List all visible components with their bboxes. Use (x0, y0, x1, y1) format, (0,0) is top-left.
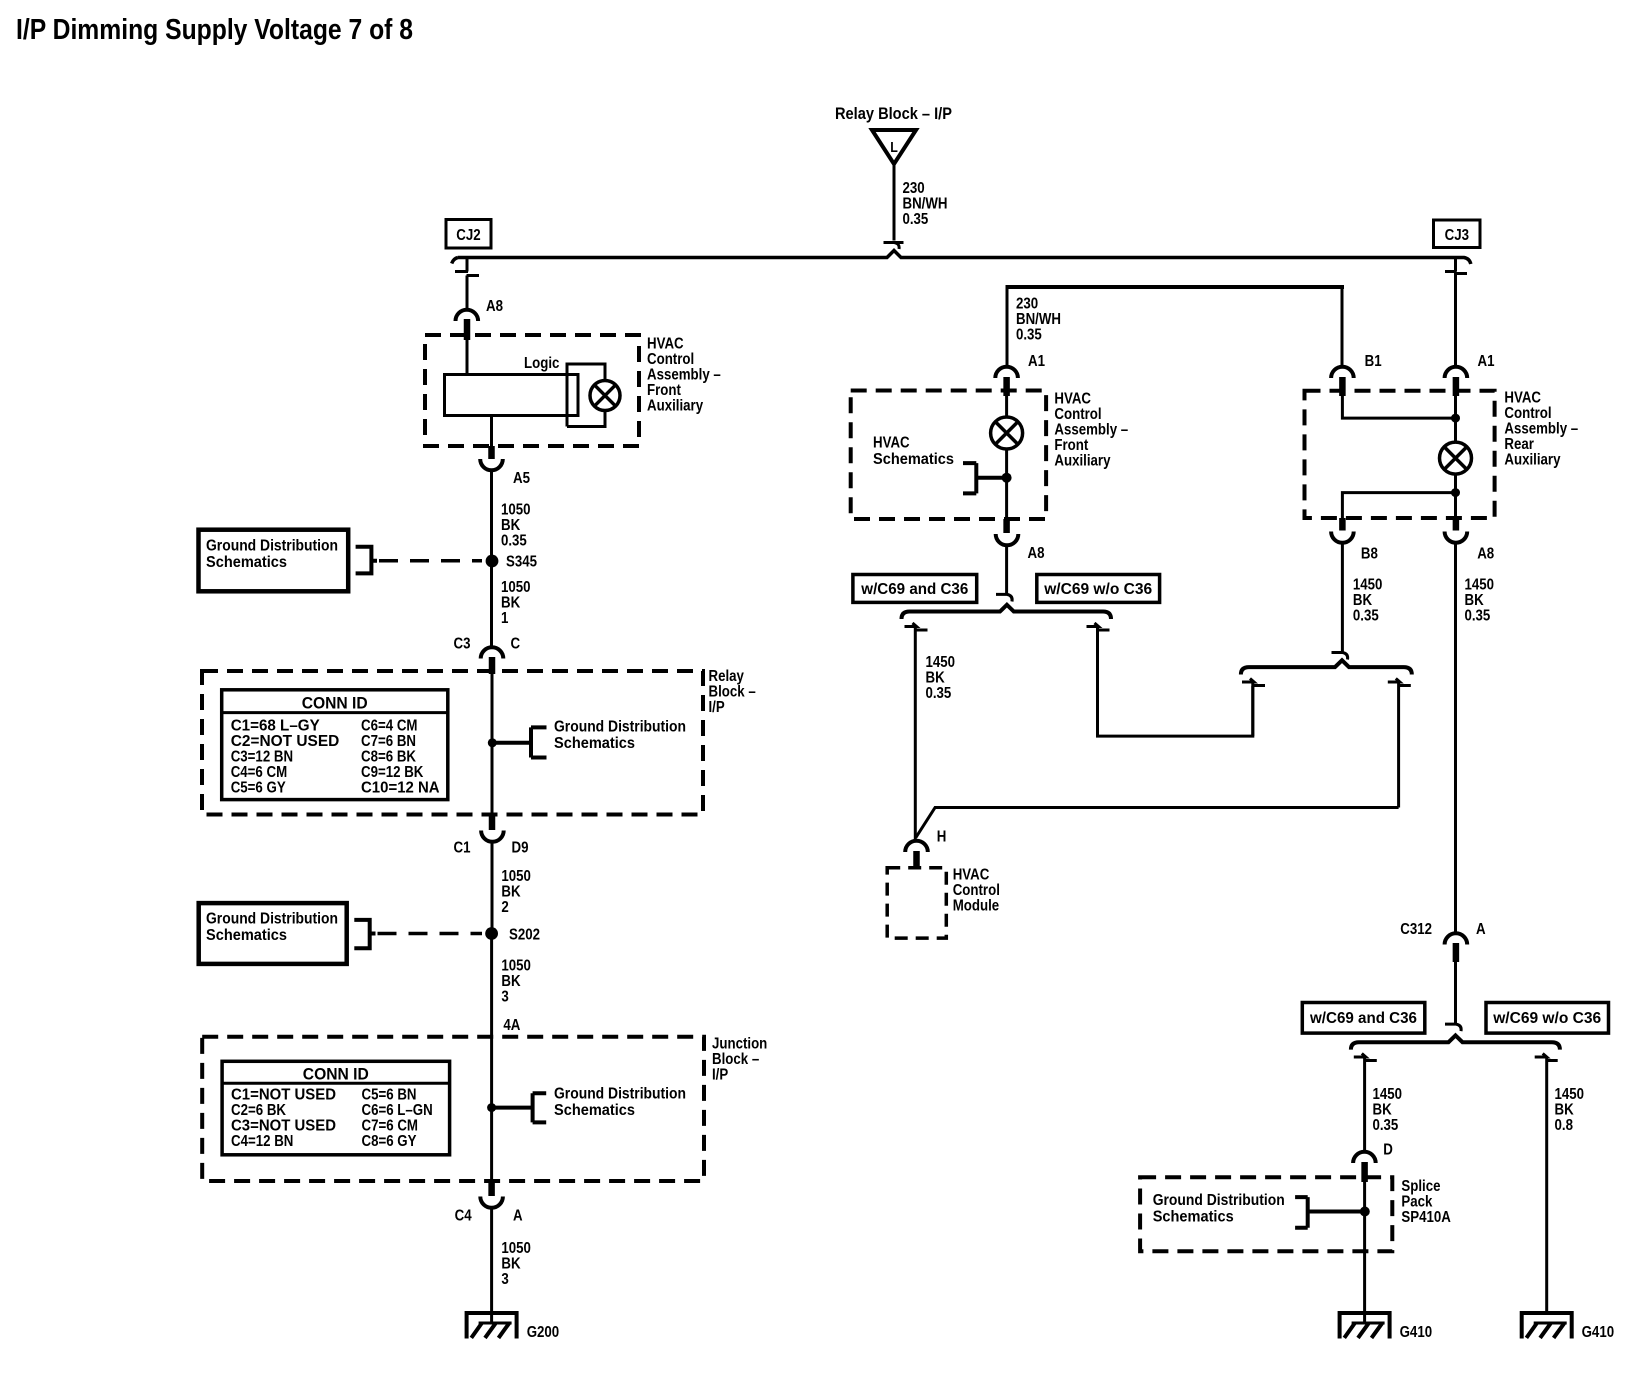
relay block triangle symbol (872, 130, 916, 164)
svg-text:0.8: 0.8 (1555, 1117, 1574, 1134)
svg-text:BK: BK (501, 1256, 521, 1273)
lamp (rear aux) (1440, 442, 1472, 474)
HVAC Control Assembly Front Auxiliary dashed box (middle) (851, 391, 1046, 520)
lamp bracket loop (567, 364, 605, 427)
wire CJ3 down (1445, 258, 1467, 366)
svg-text:C8=6 GY: C8=6 GY (362, 1133, 417, 1150)
wire B8 down to rear split (1332, 543, 1348, 660)
ground G410 (right) (1520, 1313, 1614, 1341)
splice pack SP410A dashed box (1140, 1177, 1392, 1251)
svg-text:0.35: 0.35 (1016, 327, 1042, 344)
svg-text:A1: A1 (1478, 353, 1495, 370)
dashed link to S202 (378, 932, 483, 936)
svg-text:Auxiliary: Auxiliary (1054, 453, 1110, 470)
svg-text:3: 3 (501, 989, 508, 1006)
svg-text:BK: BK (501, 884, 521, 901)
branch start left (w/C69 and C36 path) (905, 623, 928, 841)
svg-text:C9=12 BK: C9=12 BK (361, 764, 424, 781)
svg-text:4A: 4A (503, 1017, 520, 1034)
svg-text:Control: Control (647, 351, 694, 368)
svg-text:BK: BK (1373, 1102, 1393, 1119)
svg-text:1050: 1050 (501, 1240, 531, 1257)
connector B1 (1331, 353, 1382, 396)
svg-text:1450: 1450 (1465, 577, 1495, 594)
svg-text:1450: 1450 (1353, 577, 1383, 594)
ground distribution schematics ref box 1 (199, 530, 349, 592)
HVAC Control Module dashed box (887, 868, 946, 938)
wire from rear-right branch to H junction (916, 808, 1399, 838)
svg-text:S202: S202 (509, 927, 540, 944)
connector H (905, 829, 946, 870)
junction dot in relay block (488, 738, 497, 747)
rear box internal wiring (1342, 396, 1455, 442)
svg-text:D: D (1383, 1142, 1393, 1159)
svg-text:Ground Distribution: Ground Distribution (206, 911, 338, 928)
svg-text:w/C69 w/o C36: w/C69 w/o C36 (1492, 1010, 1601, 1027)
connector C1 / D9 (exit relay block) (454, 815, 529, 857)
svg-text:Assembly –: Assembly – (1504, 421, 1578, 438)
svg-text:Relay Block – I/P: Relay Block – I/P (835, 104, 952, 123)
svg-text:0.35: 0.35 (1465, 608, 1491, 625)
svg-text:1450: 1450 (1555, 1086, 1585, 1103)
svg-text:I/P: I/P (712, 1067, 728, 1084)
svg-text:1450: 1450 (926, 654, 956, 671)
svg-text:HVAC: HVAC (873, 435, 910, 452)
svg-text:L: L (890, 139, 898, 156)
wire S202 to junction block (490, 934, 493, 1037)
svg-text:BN/WH: BN/WH (903, 196, 948, 213)
branch start left (bottom) (1354, 1054, 1377, 1153)
connector A8 (rear exit) (1445, 518, 1495, 563)
lamp (front aux, left) (590, 381, 620, 411)
wire down to A1 front (1006, 285, 1009, 366)
svg-text:CONN ID: CONN ID (302, 694, 368, 713)
CONN ID table 1 (222, 690, 448, 800)
svg-text:Logic: Logic (524, 355, 559, 372)
node CJ2 label box (446, 220, 491, 249)
svg-text:CJ3: CJ3 (1445, 227, 1469, 244)
svg-text:0.35: 0.35 (926, 685, 952, 702)
bracket from ref box 1 (356, 547, 377, 574)
svg-text:Schematics: Schematics (1153, 1209, 1234, 1226)
HVAC Control Assembly Rear Auxiliary dashed box (1305, 391, 1495, 518)
svg-text:BK: BK (1465, 592, 1485, 609)
split bus (front options) (902, 605, 1112, 619)
svg-text:w/C69 w/o C36: w/C69 w/o C36 (1043, 581, 1152, 598)
connector A5 (exit of logic box) (480, 416, 530, 488)
svg-text:C10=12 NA: C10=12 NA (361, 780, 440, 797)
svg-text:C4=12 BN: C4=12 BN (231, 1133, 293, 1150)
bracket from ref box 2 (354, 920, 375, 948)
svg-text:C6=6 L–GN: C6=6 L–GN (362, 1102, 433, 1119)
svg-text:C2=6 BK: C2=6 BK (231, 1102, 286, 1119)
svg-text:1050: 1050 (501, 502, 531, 519)
svg-text:Control: Control (1054, 406, 1101, 423)
svg-text:Block –: Block – (712, 1051, 759, 1068)
wire feed horizontal B1 to A1(front) (1007, 285, 1344, 289)
wire through relay block (491, 674, 494, 815)
CONN ID table 2 (222, 1061, 450, 1155)
bracket to GDS text in relay block (492, 727, 547, 757)
svg-text:BK: BK (501, 595, 521, 612)
wire C4 to G200 (490, 1208, 493, 1324)
node CJ3 label box (1434, 220, 1481, 248)
svg-text:Schematics: Schematics (554, 735, 635, 752)
svg-text:Schematics: Schematics (206, 554, 287, 571)
svg-text:G410: G410 (1582, 1324, 1615, 1341)
svg-text:B8: B8 (1361, 546, 1378, 563)
svg-text:Control: Control (953, 882, 1000, 899)
ground distribution schematics ref box 2 (199, 903, 347, 964)
svg-text:Schematics: Schematics (873, 451, 954, 468)
svg-text:Front: Front (647, 382, 681, 399)
option box w/C69 w/o C36 (front) (1037, 575, 1160, 603)
svg-text:Junction: Junction (712, 1036, 767, 1053)
svg-text:Control: Control (1504, 405, 1551, 422)
connector A8 (front aux exit) (996, 519, 1045, 562)
svg-text:1050: 1050 (501, 579, 531, 596)
svg-text:Schematics: Schematics (206, 927, 287, 944)
wire through junction block (490, 1037, 493, 1181)
wire C312 down to bottom split (1445, 962, 1461, 1031)
relay block I/P dashed box (202, 671, 703, 815)
svg-text:Pack: Pack (1401, 1194, 1432, 1211)
svg-text:1450: 1450 (1373, 1086, 1403, 1103)
svg-text:C1=NOT USED: C1=NOT USED (231, 1087, 336, 1104)
svg-text:Block –: Block – (709, 684, 756, 701)
split bus (bottom options) (1351, 1035, 1560, 1049)
lamp (front aux, middle) (991, 417, 1023, 449)
connector C4 / A (exit junction block) (455, 1181, 523, 1225)
svg-text:Ground Distribution: Ground Distribution (1153, 1192, 1285, 1209)
branch start left (rear) (1242, 679, 1265, 737)
svg-text:C2=NOT USED: C2=NOT USED (231, 733, 340, 750)
svg-text:Auxiliary: Auxiliary (1504, 452, 1560, 469)
svg-text:Ground Distribution: Ground Distribution (206, 538, 338, 555)
option box w/C69 and C36 (front) (853, 575, 977, 603)
svg-text:2: 2 (501, 899, 508, 916)
option box w/C69 w/o C36 (bottom) (1486, 1003, 1609, 1034)
svg-text:HVAC: HVAC (953, 867, 990, 884)
svg-text:Auxiliary: Auxiliary (647, 398, 703, 415)
svg-text:A: A (513, 1208, 523, 1225)
svg-text:Ground Distribution: Ground Distribution (554, 719, 686, 736)
connector B8 (rear exit) (1331, 518, 1378, 563)
svg-text:BK: BK (1353, 592, 1373, 609)
svg-text:0.35: 0.35 (1373, 1117, 1399, 1134)
svg-text:HVAC: HVAC (1054, 391, 1091, 408)
svg-text:G200: G200 (527, 1324, 560, 1341)
ground G200 (465, 1313, 560, 1341)
svg-text:C1=68 L–GY: C1=68 L–GY (231, 718, 320, 735)
logic box (445, 355, 579, 416)
svg-text:CONN ID: CONN ID (303, 1065, 369, 1084)
svg-text:C7=6 BN: C7=6 BN (361, 733, 416, 750)
svg-text:0.35: 0.35 (501, 533, 527, 550)
connector C3 / C (entry relay block) (454, 636, 521, 675)
junction dot in junction block (487, 1103, 496, 1112)
connector D (splice pack entry) (1353, 1142, 1393, 1183)
splice S345 (486, 554, 537, 571)
svg-text:C312: C312 (1400, 921, 1432, 938)
svg-text:Relay: Relay (709, 668, 744, 685)
svg-text:A1: A1 (1028, 353, 1045, 370)
dashed link to S345 (379, 559, 482, 563)
split bus (rear options) (1241, 660, 1412, 674)
svg-text:1050: 1050 (501, 958, 531, 975)
svg-text:Splice: Splice (1401, 1178, 1440, 1195)
svg-text:Assembly –: Assembly – (1054, 422, 1128, 439)
svg-text:Rear: Rear (1504, 436, 1534, 453)
junction dot (HVAC schematics tap) (1002, 473, 1012, 483)
wire S345 to C3 (490, 561, 493, 647)
svg-text:C5=6 BN: C5=6 BN (362, 1087, 417, 1104)
wire A8 down to split (996, 545, 1012, 602)
connector A8 at bus (left branch) (455, 258, 503, 340)
splice S202 (485, 927, 540, 944)
option box w/C69 and C36 (bottom) (1302, 1003, 1425, 1034)
svg-text:BK: BK (501, 517, 521, 534)
bracket HVAC schematics (963, 463, 1007, 493)
bracket in splice pack box (1295, 1197, 1365, 1228)
svg-text:Module: Module (953, 898, 1000, 915)
bracket to GDS text in junction block (492, 1093, 547, 1122)
svg-text:BK: BK (501, 973, 521, 990)
svg-text:Schematics: Schematics (554, 1102, 635, 1119)
svg-text:C7=6 CM: C7=6 CM (362, 1118, 419, 1135)
svg-text:B1: B1 (1365, 353, 1382, 370)
branch start right (bottom) (1535, 1054, 1558, 1312)
svg-text:C3: C3 (454, 636, 471, 653)
svg-text:Ground Distribution: Ground Distribution (554, 1086, 686, 1103)
svg-text:BN/WH: BN/WH (1016, 311, 1061, 328)
svg-text:I/P: I/P (709, 699, 725, 716)
svg-text:BK: BK (926, 669, 946, 686)
svg-text:HVAC: HVAC (1504, 390, 1541, 407)
svg-text:I/P Dimming Supply Voltage 7 o: I/P Dimming Supply Voltage 7 of 8 (16, 14, 413, 46)
connector A1 (front aux entry) (995, 353, 1045, 396)
svg-text:230: 230 (903, 180, 925, 197)
svg-text:G410: G410 (1400, 1324, 1433, 1341)
wire lamp to exit (1005, 449, 1008, 519)
svg-text:A8: A8 (1028, 545, 1045, 562)
svg-text:HVAC: HVAC (647, 336, 684, 353)
svg-text:A: A (1476, 921, 1486, 938)
svg-text:C4: C4 (455, 1208, 472, 1225)
ground G410 (left) (1338, 1313, 1433, 1341)
connector A1 (rear) (1445, 353, 1495, 396)
wire A5 to S345 (490, 470, 493, 561)
svg-text:C1: C1 (454, 840, 471, 857)
wire CJ2-CJ3 bus (452, 251, 1471, 265)
svg-text:C: C (511, 636, 521, 653)
svg-text:S345: S345 (506, 554, 537, 571)
svg-text:C3=NOT USED: C3=NOT USED (231, 1118, 336, 1135)
svg-text:SP410A: SP410A (1401, 1209, 1451, 1226)
svg-text:D9: D9 (512, 840, 529, 857)
svg-text:BK: BK (1555, 1102, 1575, 1119)
wire to lamp (1005, 396, 1008, 417)
svg-text:C4=6 CM: C4=6 CM (231, 764, 288, 781)
svg-text:CJ2: CJ2 (456, 227, 480, 244)
wire through splice pack (1363, 1182, 1366, 1323)
svg-text:Front: Front (1054, 437, 1088, 454)
junction dot splice (1360, 1207, 1370, 1217)
svg-text:H: H (937, 829, 947, 846)
svg-text:C3=12 BN: C3=12 BN (231, 749, 293, 766)
svg-text:A8: A8 (486, 298, 503, 315)
svg-text:w/C69 and C36: w/C69 and C36 (860, 581, 968, 598)
svg-text:A8: A8 (1477, 546, 1494, 563)
wire B1 up and over to front A1 (1341, 289, 1344, 366)
svg-text:Assembly –: Assembly – (647, 367, 721, 384)
svg-text:C6=4 CM: C6=4 CM (361, 718, 418, 735)
svg-text:A5: A5 (513, 470, 530, 487)
connector C312 / A (1400, 921, 1486, 962)
wire into logic box (466, 340, 469, 375)
svg-text:C8=6 BK: C8=6 BK (361, 749, 416, 766)
svg-text:3: 3 (501, 1271, 508, 1288)
svg-text:230: 230 (1016, 296, 1038, 313)
svg-text:C5=6 GY: C5=6 GY (231, 780, 286, 797)
svg-text:1: 1 (501, 610, 508, 627)
wire C1 to S202 (491, 842, 494, 934)
svg-text:w/C69 and C36: w/C69 and C36 (1309, 1010, 1417, 1027)
svg-text:1050: 1050 (501, 868, 531, 885)
branch start right (rear) (1388, 679, 1411, 808)
HVAC Control Assembly Front Auxiliary dashed box (left) (425, 335, 639, 446)
wire relay to bus (884, 164, 904, 249)
svg-text:0.35: 0.35 (1353, 608, 1379, 625)
svg-text:0.35: 0.35 (903, 211, 929, 228)
wire A8 rear down to C312 (1454, 543, 1457, 933)
junction block I/P dashed box (202, 1037, 704, 1181)
branch start right (w/C69 w/o C36 path) (1087, 623, 1253, 736)
